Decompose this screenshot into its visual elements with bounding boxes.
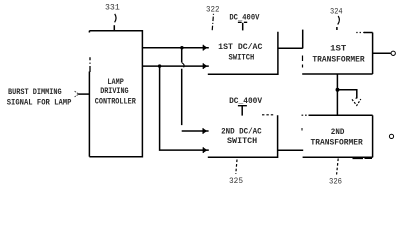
svg-text:BURST DIMMING: BURST DIMMING	[8, 88, 62, 97]
svg-text:2ND: 2ND	[331, 128, 345, 137]
svg-text:322: 322	[206, 5, 220, 15]
svg-text:1ST DC/AC: 1ST DC/AC	[218, 43, 262, 52]
svg-text:DC_400V: DC_400V	[229, 97, 262, 106]
svg-text:TRANSFORMER: TRANSFORMER	[312, 56, 364, 65]
svg-text:DC_400V: DC_400V	[229, 14, 259, 23]
svg-text:1ST: 1ST	[330, 45, 346, 54]
svg-text:LAMP: LAMP	[107, 78, 124, 87]
svg-text:324: 324	[330, 7, 343, 17]
svg-text:331: 331	[105, 2, 120, 12]
svg-text:325: 325	[229, 176, 243, 186]
svg-text:326: 326	[329, 177, 342, 187]
svg-text:DRIVING: DRIVING	[100, 87, 129, 96]
svg-text:SIGNAL FOR LAMP: SIGNAL FOR LAMP	[7, 98, 72, 107]
svg-text:2ND DC/AC: 2ND DC/AC	[221, 127, 262, 136]
svg-text:SWITCH: SWITCH	[229, 53, 255, 62]
svg-text:CONTROLLER: CONTROLLER	[95, 98, 136, 107]
svg-text:TRANSFORMER: TRANSFORMER	[311, 138, 363, 147]
svg-text:SWITCH: SWITCH	[227, 137, 257, 146]
